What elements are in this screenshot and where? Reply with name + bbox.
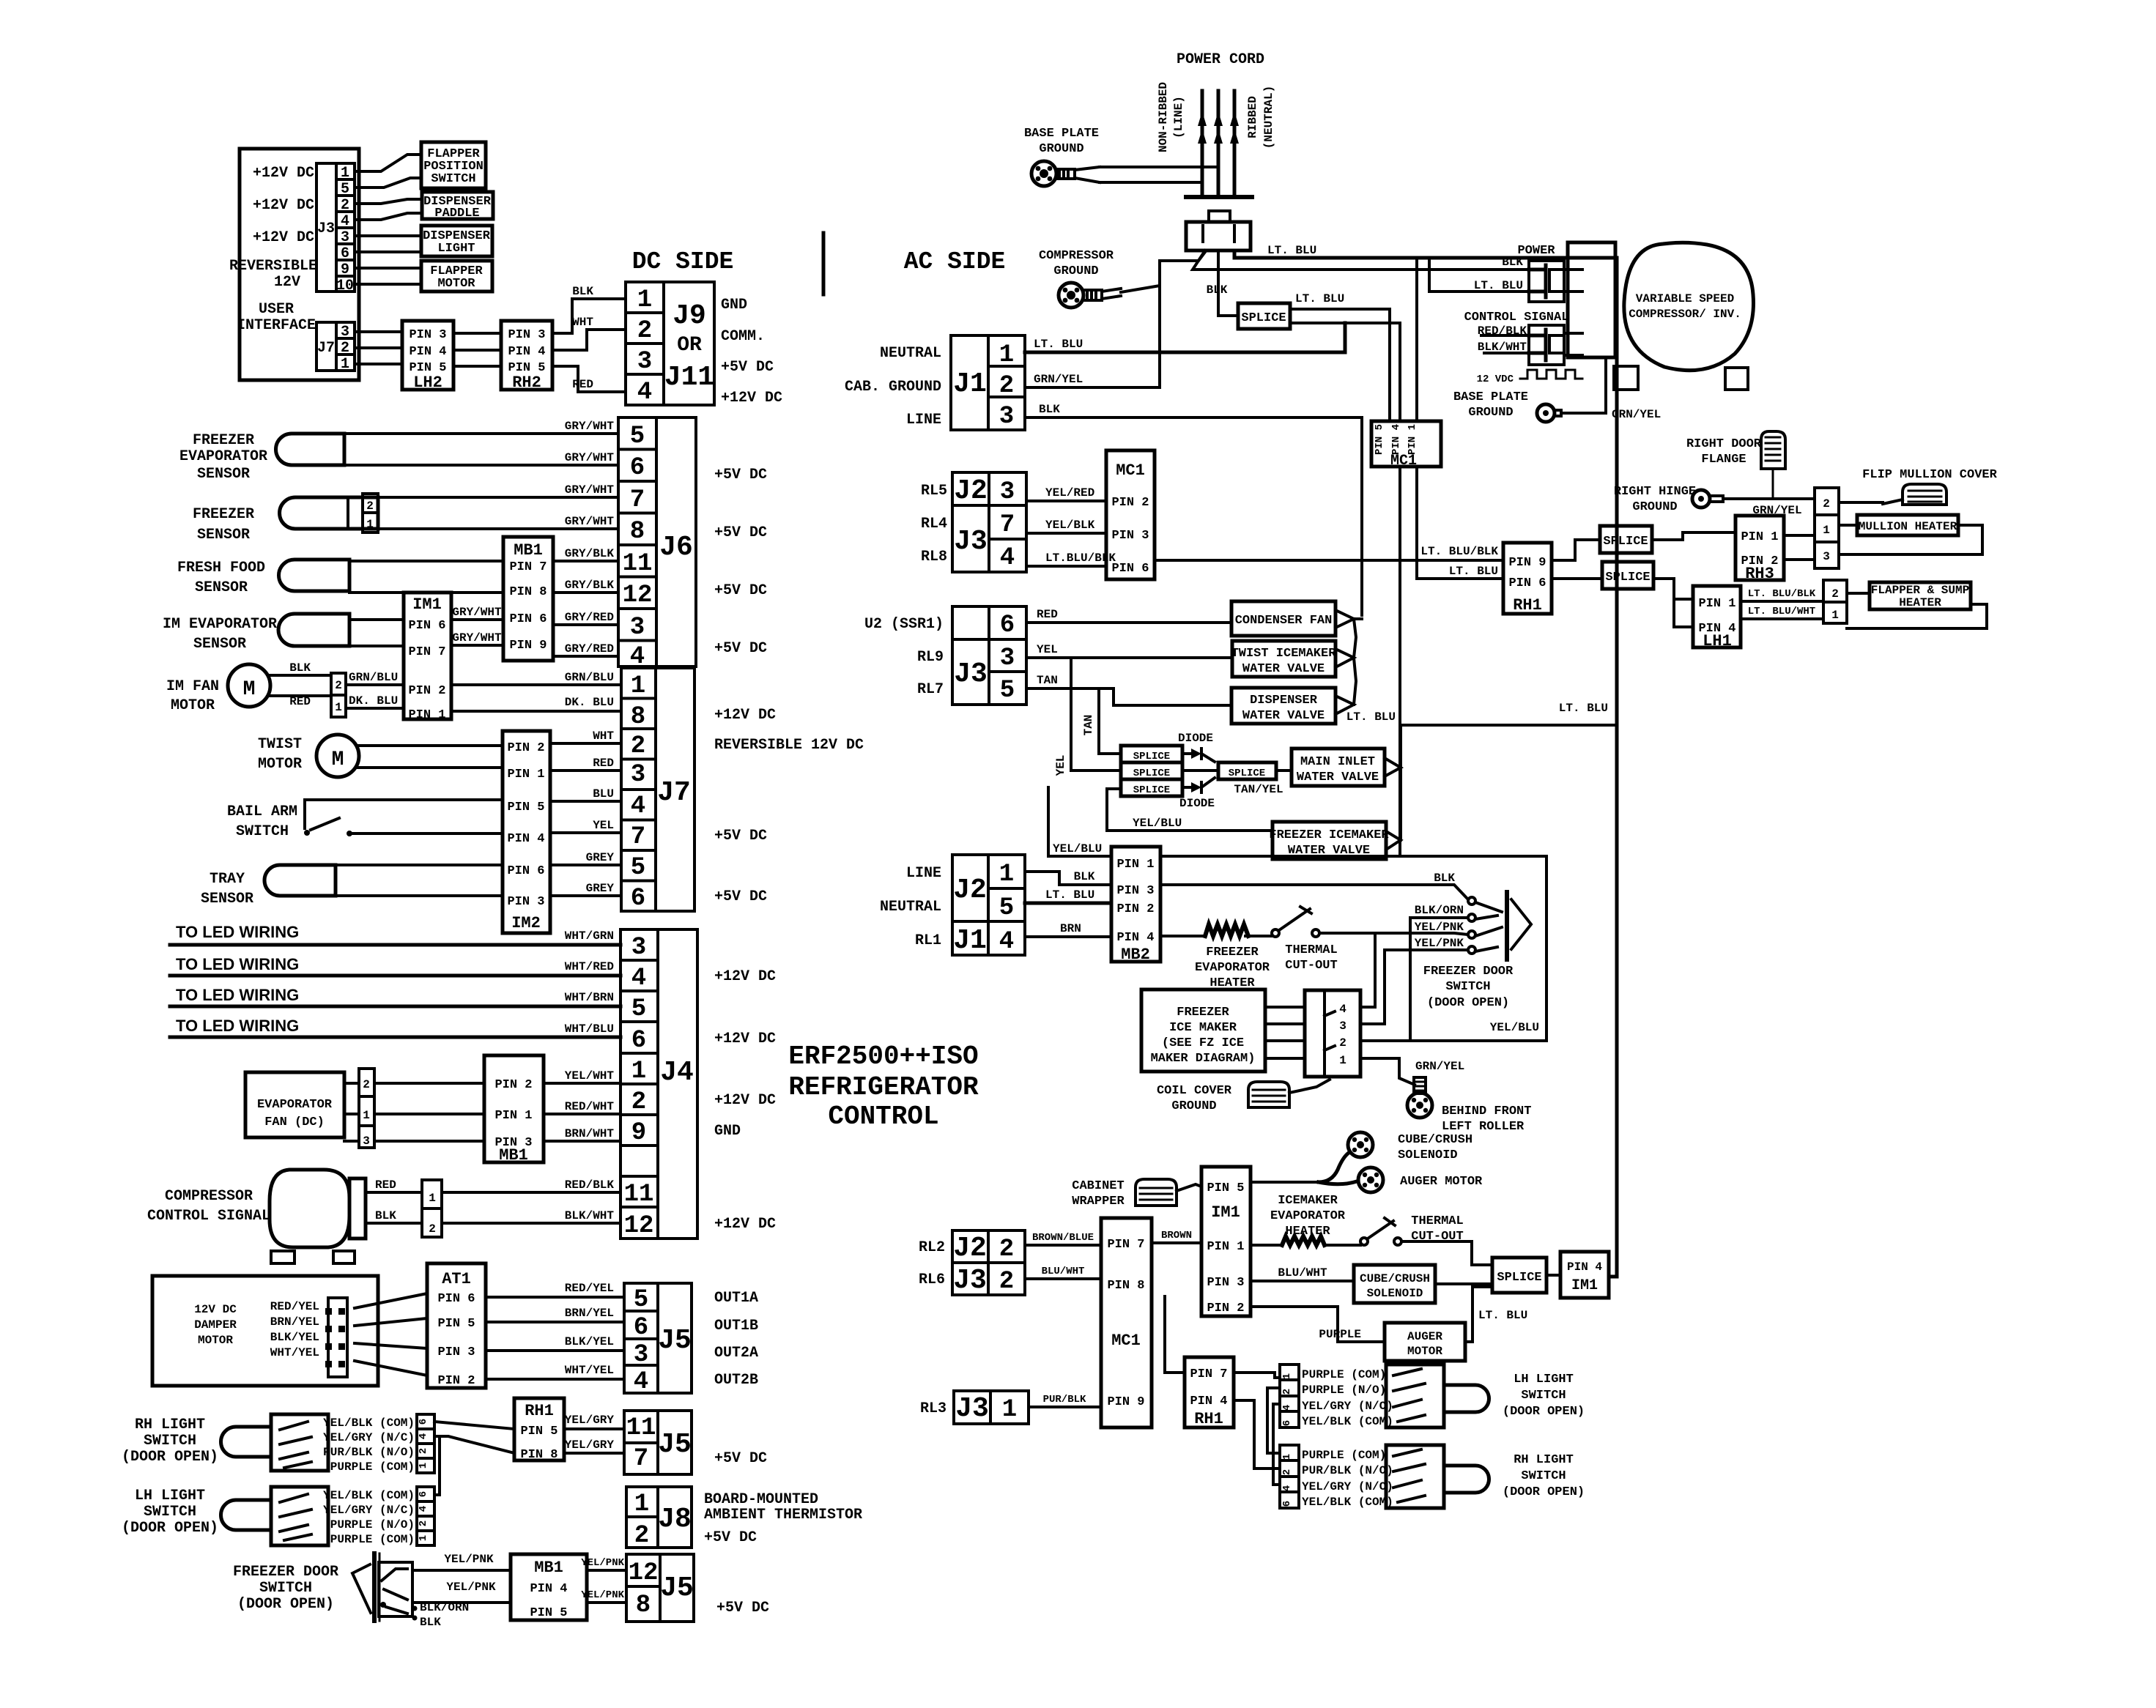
connector AT1 (427, 1263, 486, 1388)
wire evap fan pin1 to MB1 PIN 1 (344, 1113, 484, 1115)
wire icemaker conn pin4 to cutout wire (1360, 933, 1375, 1007)
wire YEL/RED (1026, 486, 1106, 501)
svg-text:6: 6 (418, 1491, 429, 1497)
base plate ground lug (1024, 127, 1100, 186)
svg-text:MOTOR: MOTOR (437, 277, 475, 291)
svg-text:SPLICE: SPLICE (1605, 571, 1650, 584)
bail arm switch (227, 800, 503, 840)
IM fan motor (166, 664, 270, 714)
svg-text:2: 2 (418, 1448, 429, 1454)
svg-text:12: 12 (623, 582, 653, 609)
svg-text:BLK: BLK (420, 1616, 441, 1629)
wire LT. BLU J1 pin1 (1025, 323, 1345, 352)
svg-text:(NEUTRAL): (NEUTRAL) (1262, 86, 1275, 149)
svg-text:TWIST: TWIST (258, 736, 302, 753)
svg-text:WHT/RED: WHT/RED (565, 960, 614, 973)
svg-text:FREEZER: FREEZER (1177, 1006, 1229, 1020)
connector IM1 (auger) (1201, 1167, 1251, 1316)
svg-text:RH1: RH1 (1513, 596, 1542, 614)
freezer ice maker box (1141, 989, 1305, 1072)
svg-text:+12V DC: +12V DC (253, 165, 314, 182)
svg-text:CUBE/CRUSH: CUBE/CRUSH (1360, 1272, 1430, 1285)
svg-text:IM EVAPORATOR: IM EVAPORATOR (163, 616, 277, 633)
svg-text:PIN 1: PIN 1 (1741, 530, 1778, 544)
wire BLK (268, 661, 331, 675)
wire GRN/YEL J1 pin2 (1025, 373, 1160, 387)
svg-text:1: 1 (631, 1058, 646, 1085)
svg-text:4: 4 (1339, 1003, 1346, 1016)
wire splice to MC1 PIN 5 (1290, 309, 1390, 421)
svg-text:EVAPORATOR: EVAPORATOR (257, 1098, 333, 1112)
svg-text:J3: J3 (954, 658, 988, 690)
svg-text:LT. BLU/BLK: LT. BLU/BLK (1748, 588, 1816, 600)
compressor plug 1/2 (422, 1180, 442, 1237)
svg-text:COMM.: COMM. (721, 328, 765, 345)
svg-text:THERMAL: THERMAL (1285, 943, 1337, 957)
wire WHT J7 pin2 (550, 729, 621, 743)
wire J3 pin2 to dispenser paddle (355, 199, 422, 204)
svg-text:J8: J8 (658, 1504, 692, 1535)
svg-text:PIN 8: PIN 8 (509, 585, 547, 599)
svg-text:YEL/PNK: YEL/PNK (1415, 937, 1464, 950)
dispenser water valve box (1231, 688, 1336, 724)
wire damper BLK/YEL to AT1 PIN 3 (355, 1343, 427, 1348)
svg-text:PIN 5: PIN 5 (1374, 424, 1385, 455)
svg-text:PIN 2: PIN 2 (494, 1078, 532, 1092)
12 VDC square wave (1477, 370, 1582, 385)
svg-text:BROWN: BROWN (1161, 1230, 1192, 1241)
svg-text:RH LIGHT: RH LIGHT (1514, 1453, 1574, 1467)
svg-text:J4: J4 (660, 1057, 694, 1088)
svg-text:6: 6 (1281, 1420, 1293, 1426)
svg-text:MOTOR: MOTOR (1407, 1345, 1442, 1358)
wire RED/WHT J4 pin2 (544, 1100, 621, 1114)
svg-text:PIN 5: PIN 5 (530, 1606, 567, 1620)
wire TAN branch to splice1 (1082, 688, 1121, 754)
wire twist motor to IM2 PIN 1 (358, 766, 503, 769)
svg-text:WATER VALVE: WATER VALVE (1242, 662, 1325, 676)
svg-text:3: 3 (1339, 1020, 1346, 1033)
svg-text:GREY: GREY (586, 882, 615, 895)
svg-text:AUGER MOTOR: AUGER MOTOR (1400, 1175, 1483, 1189)
svg-text:YEL/PNK: YEL/PNK (444, 1553, 494, 1566)
svg-text:WATER VALVE: WATER VALVE (1242, 709, 1325, 723)
svg-text:PIN 4: PIN 4 (1116, 931, 1154, 945)
svg-text:PIN 6: PIN 6 (509, 612, 547, 626)
svg-text:MB1: MB1 (514, 541, 543, 560)
wire evap fan pin2 to MB1 PIN 2 (344, 1082, 484, 1085)
svg-text:PIN 6: PIN 6 (1508, 576, 1546, 590)
svg-text:BLK: BLK (375, 1209, 396, 1222)
svg-text:POWER: POWER (1517, 244, 1555, 258)
svg-text:LT. BLU: LT. BLU (1478, 1309, 1527, 1322)
svg-text:7: 7 (1000, 511, 1015, 539)
svg-text:GRY/WHT: GRY/WHT (452, 606, 502, 619)
wire RH1 PIN 4 to RH strip (1234, 1400, 1280, 1468)
svg-text:2: 2 (999, 1236, 1014, 1263)
svg-text:PIN 7: PIN 7 (509, 560, 547, 574)
connector RH3 (1735, 516, 1784, 583)
svg-text:7: 7 (634, 1445, 648, 1473)
svg-text:RL7: RL7 (917, 681, 944, 698)
wire damper WHT/YEL to AT1 PIN 2 (355, 1361, 427, 1375)
wire GRN/YEL vertical to J1 pin2 (1158, 286, 1161, 387)
wire MC1 pin9 link (1165, 1296, 1185, 1373)
wire YEL to twist valve (1026, 643, 1232, 658)
svg-text:BLK/ORN: BLK/ORN (1415, 904, 1464, 917)
svg-text:GRY/WHT: GRY/WHT (452, 631, 502, 645)
auger motor box (1385, 1323, 1465, 1361)
wire YEL/WHT J4 pin1 (544, 1069, 621, 1083)
svg-text:OUT2A: OUT2A (714, 1345, 758, 1362)
svg-text:4: 4 (634, 1368, 648, 1396)
thermal cut-out (icemaker) (1325, 1214, 1464, 1245)
LH light switch (right) (1386, 1364, 1585, 1427)
svg-text:4: 4 (418, 1433, 429, 1439)
compressor control signal (147, 1170, 366, 1263)
svg-text:MAKER DIAGRAM): MAKER DIAGRAM) (1151, 1052, 1256, 1066)
svg-text:SENSOR: SENSOR (195, 579, 248, 596)
svg-text:BLU/WHT: BLU/WHT (1278, 1266, 1327, 1280)
svg-text:OR: OR (677, 334, 702, 357)
wire BLK to J9 pin1 (552, 285, 626, 333)
cube/crush solenoid plug (1319, 1132, 1472, 1182)
svg-text:5: 5 (999, 894, 1014, 922)
svg-text:SWITCH: SWITCH (144, 1504, 196, 1521)
IM fan plug 2/1 (331, 673, 346, 717)
svg-text:THERMAL: THERMAL (1411, 1214, 1463, 1228)
svg-text:BASE PLATE: BASE PLATE (1024, 127, 1099, 141)
svg-text:DIODE: DIODE (1179, 797, 1215, 810)
svg-text:DK. BLU: DK. BLU (349, 694, 398, 708)
svg-text:BLK: BLK (289, 661, 311, 675)
svg-text:PIN 5: PIN 5 (437, 1317, 475, 1331)
wire GRY/WHT J6 pin7 (378, 483, 618, 497)
svg-text:1: 1 (634, 1490, 649, 1518)
svg-text:3: 3 (1000, 645, 1015, 672)
wire YEL/PNK J5 pin8 (581, 1589, 626, 1603)
svg-text:WHT/YEL: WHT/YEL (565, 1364, 614, 1377)
svg-text:+5V DC: +5V DC (714, 888, 767, 905)
svg-text:GRN/YEL: GRN/YEL (1415, 1060, 1464, 1073)
svg-text:BOARD-MOUNTED: BOARD-MOUNTED (704, 1491, 818, 1508)
svg-text:BLK/ORN: BLK/ORN (420, 1601, 469, 1614)
wire to splice (1435, 1282, 1492, 1285)
svg-text:J2: J2 (953, 875, 987, 906)
svg-text:8: 8 (636, 1592, 651, 1619)
svg-text:ICE MAKER: ICE MAKER (1169, 1021, 1237, 1035)
svg-text:TO LED WIRING: TO LED WIRING (176, 923, 299, 941)
wire damper BRN/YEL to AT1 PIN 5 (355, 1318, 427, 1326)
svg-text:M: M (332, 749, 344, 771)
svg-text:MB1: MB1 (534, 1559, 563, 1577)
svg-text:YEL: YEL (1037, 643, 1058, 656)
link wire RH-LH strips (434, 1436, 440, 1495)
wire GREY J7 pin5 (550, 851, 621, 865)
svg-text:ICEMAKER: ICEMAKER (1278, 1194, 1338, 1208)
twist motor (258, 735, 359, 777)
svg-text:1: 1 (1281, 1454, 1293, 1460)
svg-text:PIN 9: PIN 9 (509, 639, 547, 653)
svg-text:1: 1 (418, 1535, 429, 1541)
svg-text:COMPRESSOR: COMPRESSOR (1039, 249, 1114, 263)
RH light switch (122, 1414, 415, 1474)
wire J7 pin3 to LH2 PIN 3 (355, 330, 402, 333)
connector J7 on UI (316, 322, 355, 373)
freezer door switch (right) (1415, 892, 1531, 1010)
wire MC1 pin4 down to door switch row (1399, 467, 1401, 856)
wire YEL/PNK to MB1 (412, 1553, 511, 1570)
wire link LH strip 2 to RH strip 1 (1267, 1388, 1280, 1453)
svg-text:1: 1 (999, 861, 1014, 888)
svg-text:LT. BLU: LT. BLU (1267, 244, 1316, 257)
svg-text:YEL/BLK (COM): YEL/BLK (COM) (1302, 1496, 1393, 1509)
svg-text:2: 2 (1339, 1036, 1346, 1050)
wire RED (366, 1178, 422, 1192)
svg-text:FREEZER: FREEZER (1206, 946, 1259, 959)
freezer icemaker water valve box (1269, 822, 1389, 859)
wire J3 pin10 to flapper motor (355, 283, 421, 286)
wire YEL/BLU into splice3 and freezer valve (1107, 789, 1273, 831)
svg-text:PIN 1: PIN 1 (408, 708, 445, 722)
wire BROWN/BLUE (1025, 1232, 1101, 1245)
svg-text:J7: J7 (317, 340, 335, 357)
svg-text:MC1: MC1 (1116, 461, 1145, 480)
wire WHT to J9 pin2 (552, 316, 626, 350)
svg-text:PIN 6: PIN 6 (507, 864, 544, 878)
mullion connector 2/1/3 (1815, 488, 1839, 568)
svg-text:GROUND: GROUND (1468, 406, 1513, 420)
wire BLK (366, 1209, 422, 1223)
connector U2/RL9/RL7 (864, 606, 1026, 705)
svg-text:BLK: BLK (1434, 872, 1455, 885)
connector LH2 (402, 321, 453, 392)
svg-text:BLU: BLU (593, 787, 614, 801)
svg-text:BRN: BRN (1060, 922, 1081, 935)
svg-text:GRY/WHT: GRY/WHT (565, 515, 615, 528)
wire LH2 PIN 4 to RH2 PIN 4 (453, 349, 501, 352)
wire PUR/BLK (1029, 1394, 1101, 1407)
wire WHT/GRN J4 pin3 (170, 929, 621, 945)
svg-text:MB1: MB1 (499, 1146, 528, 1165)
svg-text:1: 1 (429, 1192, 436, 1205)
svg-text:2: 2 (1281, 1469, 1293, 1475)
svg-text:SENSOR: SENSOR (197, 466, 250, 483)
svg-text:PIN 1: PIN 1 (494, 1109, 532, 1123)
connector PIN 4 IM1 (1546, 1252, 1609, 1298)
svg-text:RL6: RL6 (919, 1271, 945, 1288)
wire RED to condenser fan (1026, 608, 1231, 623)
svg-text:TAN: TAN (1082, 715, 1095, 736)
svg-text:U2 (SSR1): U2 (SSR1) (864, 616, 944, 633)
svg-text:TO LED WIRING: TO LED WIRING (176, 955, 299, 973)
svg-text:LT. BLU: LT. BLU (1034, 338, 1083, 351)
connector RH2 (501, 321, 552, 392)
freezer ice maker connector 4/3/2/1 (1305, 990, 1360, 1077)
svg-text:PIN 4: PIN 4 (1390, 424, 1402, 455)
wire LH2 PIN 5 to RH2 PIN 5 (453, 365, 501, 368)
wire splice B to LH1 (1653, 579, 1693, 627)
svg-text:LH2: LH2 (413, 374, 442, 392)
svg-text:LH LIGHT: LH LIGHT (135, 1488, 205, 1504)
wire J3 pin6 to dispenser light (355, 250, 421, 253)
svg-text:1: 1 (366, 518, 374, 531)
svg-text:BLU/WHT: BLU/WHT (1042, 1266, 1085, 1277)
svg-text:PIN 2: PIN 2 (437, 1374, 475, 1388)
wire BRN/YEL J5 pin6 (486, 1307, 624, 1322)
svg-text:BRN/WHT: BRN/WHT (565, 1127, 615, 1140)
wire RH3 pin2 into return (1784, 558, 1815, 561)
svg-text:2: 2 (999, 1268, 1014, 1296)
svg-text:RL1: RL1 (915, 932, 941, 949)
svg-text:+12V DC: +12V DC (714, 1031, 776, 1047)
svg-text:+12V DC: +12V DC (714, 1216, 776, 1233)
freezer evaporator heater (1160, 924, 1270, 990)
svg-text:YEL/PNK: YEL/PNK (581, 1557, 624, 1569)
svg-text:FREEZER ICEMAKER: FREEZER ICEMAKER (1269, 828, 1389, 842)
svg-text:PIN 3: PIN 3 (507, 895, 544, 909)
svg-text:SWITCH: SWITCH (1521, 1469, 1566, 1483)
wire GRY/BLK J6 pin11 (553, 547, 618, 561)
svg-text:12: 12 (629, 1559, 659, 1587)
svg-text:1: 1 (631, 672, 645, 700)
svg-text:FAN (DC): FAN (DC) (264, 1115, 325, 1129)
svg-text:(SEE FZ ICE: (SEE FZ ICE (1162, 1036, 1244, 1050)
svg-text:YEL/BLU: YEL/BLU (1490, 1021, 1539, 1034)
svg-text:EVAPORATOR: EVAPORATOR (1195, 961, 1270, 975)
wire to power lower pin (1429, 258, 1529, 292)
wire YEL J7 pin7 (550, 819, 621, 833)
wire RED (268, 695, 331, 708)
svg-text:YEL/BLU: YEL/BLU (1133, 817, 1182, 830)
wire YEL/GRY J5 pin11 (564, 1414, 624, 1429)
svg-text:LT. BLU/BLK: LT. BLU/BLK (1420, 545, 1498, 558)
svg-text:YEL/GRY: YEL/GRY (565, 1438, 615, 1452)
wire LT. BLU/BLK to heater conn (1741, 588, 1823, 601)
svg-text:3: 3 (631, 761, 645, 789)
svg-text:6: 6 (1281, 1501, 1293, 1507)
connector MC1 (top) (1371, 421, 1441, 469)
splice A (1600, 526, 1652, 553)
right door flange icon (1686, 431, 1785, 499)
svg-text:12V DC: 12V DC (194, 1303, 237, 1316)
svg-text:CUT-OUT: CUT-OUT (1285, 959, 1337, 973)
coil cover ground icon (1157, 1080, 1330, 1113)
svg-text:SPLICE: SPLICE (1497, 1271, 1541, 1285)
wire MC1 pin1 down to RH1 pin6 (1417, 467, 1503, 579)
splice 1 (1121, 746, 1182, 762)
wire RH3 pin1 to cell1 (1784, 534, 1815, 537)
dispenser paddle box (422, 192, 493, 220)
svg-text:YEL: YEL (1054, 755, 1067, 776)
svg-text:1: 1 (1339, 1054, 1346, 1067)
svg-text:SWITCH: SWITCH (144, 1433, 196, 1449)
wire LT. BLU auger to splice (1465, 1287, 1527, 1342)
RH light strip 1/2/4/6 (1280, 1445, 1393, 1509)
svg-text:YEL/PNK: YEL/PNK (581, 1589, 624, 1601)
svg-text:GRY/RED: GRY/RED (565, 611, 614, 624)
svg-text:PIN 9: PIN 9 (1107, 1395, 1144, 1409)
svg-text:1: 1 (1281, 1373, 1293, 1379)
svg-text:PIN 3: PIN 3 (1111, 529, 1149, 543)
svg-text:DAMPER: DAMPER (194, 1318, 237, 1332)
svg-text:COMPRESSOR: COMPRESSOR (165, 1188, 253, 1205)
svg-text:6: 6 (418, 1419, 429, 1425)
wire PURPLE IM1 pin2 to auger box (1251, 1307, 1385, 1342)
svg-text:IM1: IM1 (412, 595, 442, 614)
svg-text:PIN 1: PIN 1 (1698, 597, 1735, 611)
wire J3 pin5 to flapper position switch (355, 178, 421, 187)
splice 2 (1121, 762, 1182, 779)
svg-text:LH LIGHT: LH LIGHT (1514, 1373, 1574, 1386)
svg-text:2: 2 (1823, 497, 1830, 510)
svg-text:SENSOR: SENSOR (197, 527, 250, 543)
svg-text:LT. BLU: LT. BLU (1559, 702, 1608, 715)
svg-text:RH1: RH1 (1194, 1410, 1223, 1428)
svg-text:3: 3 (634, 1341, 648, 1369)
cube/crush solenoid box (1354, 1265, 1435, 1303)
svg-text:DIODE: DIODE (1178, 732, 1213, 745)
wire GRY/WHT IM1-MB1 (451, 631, 503, 645)
wire RED to J9 pin4 (552, 366, 626, 392)
wire plug to MC1 pin1 (1415, 258, 1418, 421)
svg-text:SOLENOID: SOLENOID (1367, 1287, 1423, 1300)
svg-text:6: 6 (634, 1314, 648, 1342)
svg-text:BRN/YEL: BRN/YEL (565, 1307, 614, 1320)
svg-text:REFRIGERATOR: REFRIGERATOR (788, 1072, 979, 1102)
flapper & sump heater box (1847, 582, 1987, 628)
svg-text:1: 1 (418, 1463, 429, 1468)
svg-text:5: 5 (341, 181, 349, 198)
wire fresh food sensor to MB1 PIN 8 (349, 591, 503, 594)
svg-text:7: 7 (630, 486, 645, 514)
svg-text:8: 8 (631, 703, 645, 731)
power switch box (1474, 244, 1564, 302)
svg-text:PIN 5: PIN 5 (507, 801, 544, 814)
svg-text:4: 4 (999, 928, 1014, 956)
svg-text:2: 2 (634, 1522, 649, 1550)
wire GRN/BLU to IM1 (346, 671, 404, 685)
wire IM evap sensor to IM1 PIN 7 (349, 645, 404, 647)
wire BROWN MC1 to IM1 (1152, 1230, 1201, 1243)
svg-text:PIN 7: PIN 7 (1107, 1238, 1144, 1252)
wire GRY/WHT J6 pin6 (344, 451, 618, 465)
svg-text:RL5: RL5 (921, 483, 947, 500)
wire base plate ground to cord line 2 (1100, 181, 1202, 184)
svg-text:LT. BLU: LT. BLU (1295, 292, 1344, 305)
svg-text:YEL/GRY (N/C): YEL/GRY (N/C) (1302, 1400, 1393, 1413)
svg-text:MOTOR: MOTOR (198, 1334, 233, 1347)
svg-text:1: 1 (1002, 1396, 1017, 1424)
svg-text:YEL/GRY: YEL/GRY (565, 1414, 615, 1427)
svg-text:PIN 8: PIN 8 (1107, 1279, 1144, 1293)
wire GRN/YEL to mullion connector (1723, 499, 1815, 517)
svg-text:WHT/BRN: WHT/BRN (565, 991, 614, 1004)
svg-text:EVAPORATOR: EVAPORATOR (1270, 1209, 1346, 1223)
svg-text:+5V DC: +5V DC (714, 467, 767, 483)
wire BLU/WHT (1025, 1266, 1101, 1279)
svg-text:ERF2500++ISO: ERF2500++ISO (788, 1041, 978, 1072)
svg-text:PUR/BLK (N/O): PUR/BLK (N/O) (1302, 1464, 1393, 1477)
dispenser light box (421, 226, 492, 256)
svg-text:(DOOR OPEN): (DOOR OPEN) (1427, 996, 1509, 1010)
svg-text:TO LED WIRING: TO LED WIRING (176, 1017, 299, 1035)
svg-text:EVAPORATOR: EVAPORATOR (179, 448, 267, 465)
control signal switch box (1464, 311, 1569, 365)
svg-text:PIN 4: PIN 4 (1567, 1260, 1602, 1274)
svg-text:J5: J5 (660, 1573, 694, 1604)
svg-text:NEUTRAL: NEUTRAL (880, 345, 941, 362)
